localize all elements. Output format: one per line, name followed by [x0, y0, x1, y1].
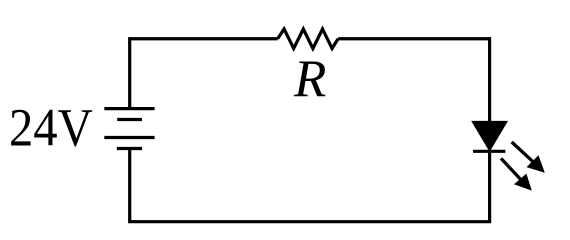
svg-text:24V: 24V	[9, 97, 93, 157]
LED light arrow 1 shaft	[512, 142, 533, 162]
wire: resistor to top-right corner and down to LED anode	[338, 39, 490, 122]
wire: LED cathode down, across bottom, up to battery negative	[130, 149, 490, 222]
LED light arrow 2 shaft	[501, 158, 521, 179]
LED D1 triangle (anode)	[474, 122, 506, 148]
LED light arrow 2 head	[514, 174, 532, 191]
battery plate: short negative 2	[117, 147, 142, 150]
battery plate: long positive 1	[104, 107, 154, 110]
battery B1	[104, 109, 154, 149]
LED light arrow 1 head	[527, 155, 545, 172]
svg-text:R: R	[293, 50, 326, 108]
resistor R	[278, 29, 339, 49]
wire: battery positive up left side and across top to resistor	[130, 39, 278, 109]
LED cathode bar	[473, 150, 505, 153]
battery plate: short negative 1	[117, 118, 142, 121]
battery plate: long positive 2	[104, 136, 154, 139]
